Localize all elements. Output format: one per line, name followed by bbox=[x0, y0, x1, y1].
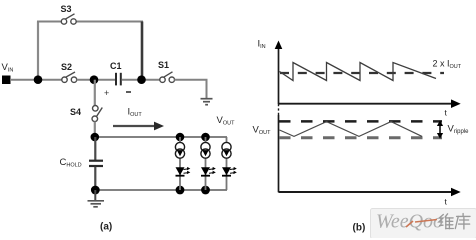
junction bottom-Chold bbox=[91, 186, 100, 195]
wire branch1 bbox=[179, 137, 181, 190]
axis X bottom chart bbox=[279, 191, 453, 193]
junction bottom-LED2 bbox=[201, 186, 210, 195]
arrow Vripple bbox=[437, 120, 443, 138]
node B junction bbox=[90, 75, 99, 84]
terminal Vin bbox=[2, 76, 11, 85]
axis Y bottom chart bbox=[278, 104, 280, 115]
waveform Vout triangle bbox=[280, 122, 423, 137]
LED3 diode bbox=[222, 167, 231, 175]
axis X top chart bbox=[279, 103, 453, 105]
current source D2 bbox=[201, 142, 210, 158]
svg-text:WeeQoo: WeeQoo bbox=[376, 211, 443, 233]
wire vertical left riser bbox=[37, 22, 39, 80]
capacitor Chold bbox=[89, 161, 103, 166]
svg-text:C1: C1 bbox=[110, 61, 122, 71]
ground bottom bbox=[88, 201, 105, 207]
switch S4 bbox=[92, 106, 102, 122]
svg-text:(a): (a) bbox=[100, 222, 112, 233]
wire bottom LED rail bbox=[95, 189, 227, 191]
arrow Iout bbox=[113, 122, 164, 131]
wire S2 to C1 bbox=[77, 79, 116, 81]
wire rail to Chold bbox=[94, 137, 96, 160]
switch S1 bbox=[160, 72, 175, 83]
LED1 diode bbox=[176, 167, 185, 175]
junction rail-LED1 bbox=[176, 133, 185, 142]
svg-text:S2: S2 bbox=[61, 62, 72, 72]
wire ground stem bottom bbox=[94, 190, 96, 200]
node C junction bbox=[137, 75, 146, 84]
wire vertical right riser bbox=[141, 22, 144, 80]
wire branch3 bbox=[226, 137, 228, 190]
switch S3 bbox=[61, 14, 76, 24]
svg-text:+: + bbox=[104, 88, 109, 98]
wire S4 to rail bbox=[94, 122, 96, 137]
LED2 diode bbox=[201, 167, 210, 175]
junction rail-S4 bbox=[91, 133, 100, 142]
wire S1 to ground bbox=[174, 80, 206, 98]
switch S2 bbox=[62, 72, 77, 82]
waveform Iin sawtooth bbox=[280, 63, 437, 81]
LED branch 3 bbox=[222, 137, 237, 190]
svg-text:(b): (b) bbox=[353, 223, 366, 234]
wire branch2 bbox=[205, 137, 207, 190]
dashed Vout upper bbox=[279, 120, 442, 123]
wire main horizontal left bbox=[10, 79, 62, 81]
label C1 minus bbox=[126, 91, 131, 93]
junction bottom-LED1 bbox=[176, 186, 185, 195]
svg-text:S1: S1 bbox=[158, 60, 169, 70]
capacitor C1 bbox=[116, 73, 121, 86]
wire Chold to bottom rail bbox=[94, 167, 96, 190]
current source D3 bbox=[222, 142, 231, 158]
node A junction bbox=[34, 75, 43, 84]
ground right bbox=[201, 99, 213, 105]
LED branch 2 bbox=[201, 137, 216, 190]
watermark slashes bbox=[406, 221, 413, 227]
LED branch 1 bbox=[175, 137, 190, 190]
wire top rail left bbox=[37, 21, 62, 23]
svg-text:S4: S4 bbox=[70, 107, 81, 117]
svg-text:S3: S3 bbox=[61, 4, 72, 14]
wire C1 to S1 bbox=[122, 79, 161, 81]
wire top LED rail bbox=[95, 136, 227, 138]
wire top rail right bbox=[77, 21, 144, 23]
current source D1 bbox=[175, 142, 184, 158]
watermark box bbox=[371, 209, 476, 239]
wire B down to S4 bbox=[94, 80, 96, 106]
dashed Vout lower bbox=[279, 136, 442, 139]
axis Y top chart bbox=[278, 46, 280, 104]
junction rail-LED2 bbox=[201, 133, 210, 142]
watermark CN bbox=[439, 214, 470, 229]
dashed 2xIout level bbox=[280, 72, 444, 74]
